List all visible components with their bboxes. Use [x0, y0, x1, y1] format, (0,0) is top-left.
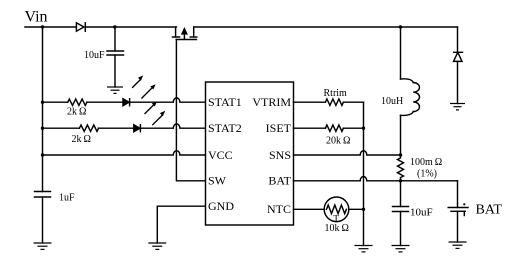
- svg-text:Vin: Vin: [25, 9, 48, 26]
- svg-text:VTRIM: VTRIM: [252, 95, 291, 109]
- svg-text:SNS: SNS: [269, 148, 291, 162]
- svg-text:SW: SW: [208, 174, 227, 188]
- svg-text:2k Ω: 2k Ω: [72, 134, 91, 145]
- svg-text:10uF: 10uF: [410, 207, 433, 219]
- svg-text:20k Ω: 20k Ω: [326, 135, 350, 146]
- svg-text:BAT: BAT: [476, 203, 503, 218]
- svg-text:NTC: NTC: [267, 202, 291, 216]
- svg-text:(1%): (1%): [417, 168, 437, 179]
- svg-text:T: T: [333, 215, 339, 225]
- svg-text:STAT1: STAT1: [208, 95, 242, 109]
- svg-text:10uH: 10uH: [381, 96, 403, 107]
- svg-text:VCC: VCC: [208, 148, 233, 162]
- svg-text:10k Ω: 10k Ω: [325, 223, 349, 234]
- svg-text:STAT2: STAT2: [208, 121, 242, 135]
- svg-text:Rtrim: Rtrim: [324, 88, 348, 99]
- svg-text:10uF: 10uF: [84, 50, 105, 61]
- svg-text:ISET: ISET: [266, 121, 292, 135]
- svg-text:1uF: 1uF: [59, 192, 75, 203]
- svg-text:GND: GND: [208, 199, 234, 213]
- svg-text:2k Ω: 2k Ω: [67, 106, 86, 117]
- svg-text:BAT: BAT: [268, 174, 291, 188]
- svg-text:100m Ω: 100m Ω: [410, 157, 442, 168]
